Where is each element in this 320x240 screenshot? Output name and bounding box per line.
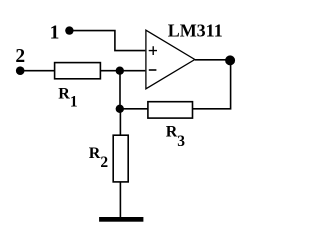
svg-text:R2: R2: [89, 145, 109, 171]
wire: node 2 to R1 left lead: [20, 70, 54, 72]
wire: R2/R3 node down to R2 top lead: [119, 109, 121, 136]
node 1 terminal dot: [65, 26, 73, 34]
output node dot: [225, 55, 235, 65]
resistor R3: [148, 102, 193, 118]
op-amp non-inverting (+) input symbol: [149, 46, 157, 55]
wire: R1 right lead to op-amp inverting (-) input: [100, 70, 145, 72]
ground: [99, 217, 143, 222]
wire: R2/R3 node to R3 left lead: [120, 108, 148, 110]
resistor R2: [113, 135, 128, 182]
junction: R2/R3 node: [116, 105, 124, 113]
svg-text:R3: R3: [166, 124, 186, 151]
svg-text:R1: R1: [58, 86, 77, 111]
wire: op-amp output to output node: [195, 59, 230, 61]
node 2 terminal dot: [16, 66, 25, 75]
resistor R1: [55, 63, 101, 79]
wire: R3 right lead up to output node: [193, 60, 231, 108]
wire: node 1 to op-amp non-inverting (+) input: [69, 31, 145, 51]
junction: inverting input node: [116, 67, 124, 75]
svg-text:LM311: LM311: [168, 21, 223, 41]
wire: inverting node down to R2/R3 node: [119, 71, 121, 109]
op-amp U1 (LM311) triangle: [146, 30, 195, 89]
wire: R2 bottom lead to ground: [119, 182, 121, 218]
svg-text:1: 1: [50, 22, 60, 43]
svg-text:2: 2: [15, 46, 25, 67]
op-amp inverting (-) input symbol: [149, 69, 157, 71]
